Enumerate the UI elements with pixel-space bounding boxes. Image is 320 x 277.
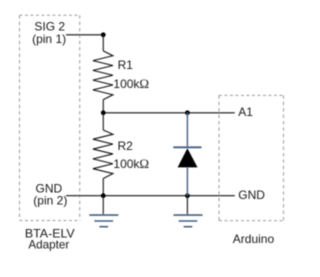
- ground symbol (under R2): [89, 215, 118, 227]
- resistor R1 zigzag body: [93, 51, 113, 100]
- junction dot diode branch on A1 wire: [185, 110, 190, 115]
- wire diode anode lead: [186, 167, 188, 195]
- wire diode cathode lead: [186, 113, 188, 147]
- svg-text:R1: R1: [118, 58, 134, 72]
- svg-text:A1: A1: [238, 105, 253, 119]
- wire GND rail: [66, 195, 235, 197]
- junction dot R1/R2/A1 node: [101, 110, 106, 115]
- Arduino enclosure (dashed box): [219, 95, 284, 220]
- svg-text:GND: GND: [238, 188, 265, 202]
- wire stub R2 junction to ground symbol: [102, 196, 104, 215]
- resistor R2 zigzag body: [93, 130, 113, 179]
- BTA-ELV Adapter enclosure (dashed box): [20, 15, 80, 220]
- wire SIG 2 to R1 top: [66, 34, 103, 36]
- wire R2 top lead: [102, 113, 104, 130]
- junction dot SIG2/R1: [101, 32, 106, 37]
- wire stub diode junction to ground symbol: [186, 196, 188, 215]
- diode D1 cathode bar: [173, 146, 201, 148]
- svg-text:R2: R2: [118, 139, 134, 153]
- junction dot diode/GND rail: [185, 193, 190, 198]
- wire R2 bottom lead: [102, 179, 104, 196]
- svg-text:(pin 1): (pin 1): [32, 32, 66, 46]
- svg-text:Adapter: Adapter: [28, 239, 69, 252]
- ground symbol (under diode): [174, 215, 203, 227]
- svg-text:Arduino: Arduino: [233, 232, 275, 246]
- svg-text:(pin 2): (pin 2): [33, 193, 67, 207]
- diode D1 triangle (anode): [178, 148, 198, 167]
- junction dot R2/GND rail: [101, 193, 106, 198]
- wire R1 bottom lead: [102, 100, 104, 113]
- svg-text:100kΩ: 100kΩ: [113, 76, 149, 91]
- svg-text:100kΩ: 100kΩ: [113, 156, 149, 171]
- wire R1 top lead: [102, 35, 104, 51]
- wire divider node to A1: [103, 112, 235, 114]
